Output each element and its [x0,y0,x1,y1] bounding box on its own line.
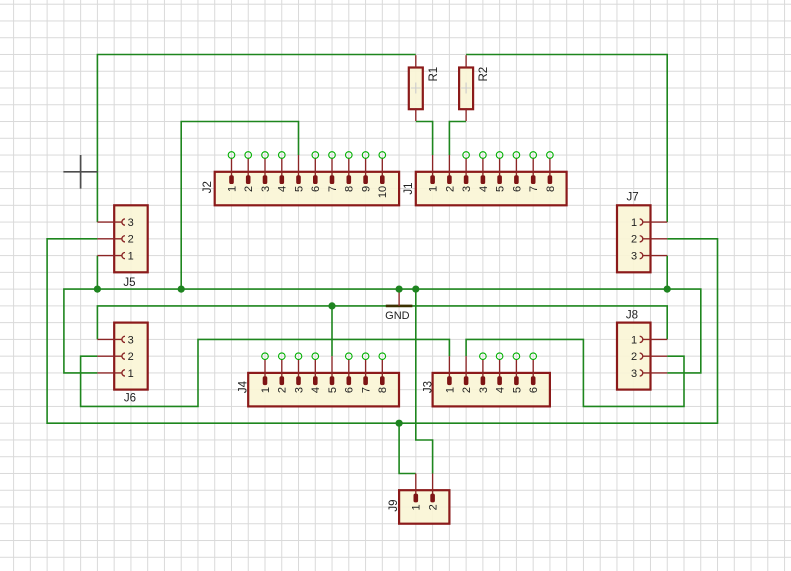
svg-text:1: 1 [428,186,440,192]
svg-text:4: 4 [277,186,289,192]
svg-text:5: 5 [495,186,507,192]
svg-text:1: 1 [128,368,134,380]
svg-text:3: 3 [478,387,490,393]
svg-text:2: 2 [631,234,637,246]
svg-text:3: 3 [293,387,305,393]
svg-text:1: 1 [128,251,134,263]
svg-text:1: 1 [444,387,456,393]
svg-text:3: 3 [631,368,637,380]
svg-text:1: 1 [631,217,637,229]
svg-text:2: 2 [243,186,255,192]
svg-text:2: 2 [128,351,134,363]
svg-text:2: 2 [631,351,637,363]
svg-text:J2: J2 [202,181,214,193]
svg-text:5: 5 [511,387,523,393]
svg-text:3: 3 [128,217,134,229]
svg-text:2: 2 [461,387,473,393]
svg-text:1: 1 [226,186,238,192]
svg-text:6: 6 [528,387,540,393]
svg-text:2: 2 [128,234,134,246]
svg-text:4: 4 [495,387,507,393]
svg-text:6: 6 [511,186,523,192]
svg-text:5: 5 [293,186,305,192]
svg-text:7: 7 [528,186,540,192]
svg-text:8: 8 [344,186,356,192]
svg-text:1: 1 [631,334,637,346]
svg-text:8: 8 [377,387,389,393]
svg-text:7: 7 [327,186,339,192]
svg-text:2: 2 [444,186,456,192]
svg-text:GND: GND [385,310,410,322]
svg-text:2: 2 [277,387,289,393]
svg-text:2: 2 [428,504,440,510]
svg-text:R2: R2 [478,67,490,82]
svg-text:3: 3 [461,186,473,192]
svg-text:J3: J3 [422,381,434,393]
svg-text:1: 1 [411,504,423,510]
svg-text:J8: J8 [626,310,638,322]
svg-text:4: 4 [478,186,490,192]
svg-text:5: 5 [327,387,339,393]
svg-text:3: 3 [128,334,134,346]
svg-text:9: 9 [361,186,373,192]
svg-text:J1: J1 [403,182,415,194]
svg-text:10: 10 [377,186,389,198]
svg-text:4: 4 [310,387,322,393]
svg-text:J4: J4 [238,380,250,393]
svg-text:3: 3 [260,186,272,192]
svg-text:J9: J9 [388,499,400,511]
svg-text:6: 6 [310,186,322,192]
svg-text:3: 3 [631,251,637,263]
svg-text:8: 8 [545,186,557,192]
svg-text:J7: J7 [627,191,639,203]
svg-text:J6: J6 [124,393,136,405]
svg-text:1: 1 [260,387,272,393]
svg-text:R1: R1 [428,67,440,82]
svg-text:J5: J5 [123,277,135,289]
svg-text:6: 6 [344,387,356,393]
svg-text:7: 7 [361,387,373,393]
